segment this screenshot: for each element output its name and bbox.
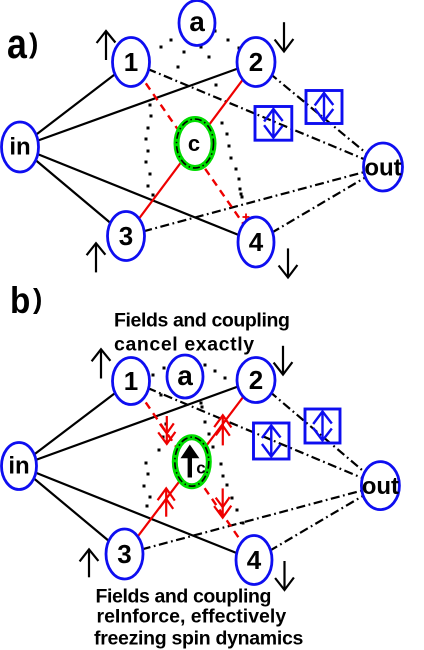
- node 2 (panel a): [237, 38, 275, 87]
- spin superposition box left (panel b): [254, 423, 290, 459]
- red solid coupling 3-2 (panel b): [125, 380, 257, 554]
- wire 1-out dash-dot (panel b): [131, 381, 380, 486]
- svg-text:c: c: [188, 131, 200, 156]
- svg-text:in: in: [8, 453, 29, 480]
- wire 4-out dash-dot (panel b): [254, 486, 380, 560]
- svg-text:out: out: [362, 473, 399, 500]
- spin arrow up near node 1 (panel a): [97, 31, 116, 60]
- node in (panel a): [2, 122, 39, 172]
- svg-text:): ): [33, 283, 42, 314]
- wire in-3 (panel a): [20, 147, 126, 236]
- wire in-1 (panel a): [20, 62, 131, 147]
- svg-text:a: a: [7, 21, 27, 67]
- svg-text:Fields and coupling: Fields and coupling: [96, 586, 272, 608]
- wire 1-out dash-dot (panel a): [131, 62, 383, 167]
- wire in-4 (panel b): [19, 466, 254, 560]
- svg-text:a: a: [189, 6, 205, 37]
- svg-text:1: 1: [124, 366, 138, 396]
- node c with green highlight ring (panel a): [177, 119, 214, 168]
- node out (panel b): [361, 462, 399, 510]
- node 1 (panel a): [113, 38, 150, 87]
- wire 2-out dash-dot (panel a): [256, 62, 383, 167]
- dotted interaction oval around a and c (panel b): [143, 364, 245, 525]
- spin arrow up near node 1 (panel b): [92, 349, 111, 378]
- wire in-2 (panel a): [20, 62, 256, 147]
- red dashed coupling 1-4 (panel a): [131, 62, 256, 242]
- wire in-1 (panel b): [19, 381, 131, 466]
- node 2 (panel b): [237, 358, 275, 403]
- svg-text:cancel exactly: cancel exactly: [114, 334, 255, 356]
- spin superposition box right (panel a): [306, 91, 342, 124]
- red coupling arrow c to 4 (panel b): [214, 488, 231, 517]
- node 3 (panel b): [106, 529, 143, 579]
- spin superposition box right (panel b): [305, 409, 340, 443]
- spin superposition box left (panel a): [255, 107, 292, 141]
- node a (panel a): [179, 1, 215, 46]
- spin arrow up near node 3 (panel a): [87, 243, 106, 272]
- red coupling arrow c to 2 (panel b): [214, 415, 231, 445]
- svg-text:freezing spin dynamics: freezing spin dynamics: [94, 628, 303, 650]
- node 4 (panel b): [236, 536, 272, 585]
- svg-text:2: 2: [249, 365, 263, 395]
- wire 3-out dash-dot (panel b): [125, 486, 381, 554]
- node 3 (panel a): [108, 212, 145, 261]
- svg-text:): ): [29, 28, 38, 59]
- node c with green ring and frozen up spin (panel b): [175, 437, 209, 486]
- svg-text:4: 4: [249, 227, 264, 257]
- node a (panel b): [167, 355, 203, 398]
- wire 2-out dash-dot (panel b): [256, 380, 380, 486]
- red dashed coupling 1-4 (panel b): [131, 381, 254, 560]
- dotted interaction oval around a and c (panel a): [145, 30, 244, 199]
- node out (panel a): [364, 143, 403, 191]
- svg-text:3: 3: [119, 221, 133, 251]
- wire in-4 (panel a): [20, 147, 256, 242]
- svg-text:2: 2: [249, 47, 263, 77]
- red solid coupling 3-2 (panel a): [126, 62, 256, 236]
- wire in-2 (panel b): [19, 380, 256, 466]
- spin arrow down near node 4 (panel a): [279, 248, 298, 277]
- node 1 (panel b): [113, 358, 150, 405]
- red plus marker near node 4 (panel a): [243, 214, 250, 221]
- node in (panel b): [2, 443, 37, 490]
- spin arrow down near node 2 (panel a): [275, 22, 294, 51]
- node 4 (panel a): [238, 217, 274, 267]
- wire in-3 (panel b): [19, 466, 125, 554]
- svg-text:a: a: [177, 360, 193, 391]
- svg-text:b: b: [10, 280, 30, 321]
- svg-text:1: 1: [124, 47, 138, 77]
- red coupling arrow 3 to c (panel b): [158, 488, 175, 516]
- svg-text:4: 4: [247, 545, 262, 575]
- wire 4-out dash-dot (panel a): [256, 167, 383, 242]
- svg-text:in: in: [9, 134, 30, 161]
- spin arrow down near node 4 (panel b): [275, 561, 294, 590]
- svg-text:Fields and coupling: Fields and coupling: [114, 310, 290, 332]
- svg-text:reInforce, effectively: reInforce, effectively: [97, 606, 287, 628]
- svg-text:out: out: [364, 155, 401, 182]
- svg-text:c: c: [196, 459, 205, 478]
- spin arrow down near node 2 (panel b): [274, 346, 293, 375]
- red coupling arrow 1 to c (panel b): [158, 416, 175, 444]
- wire 3-out dash-dot (panel a): [126, 167, 383, 236]
- svg-text:3: 3: [117, 539, 131, 569]
- spin arrow up near node 3 (panel b): [80, 549, 99, 577]
